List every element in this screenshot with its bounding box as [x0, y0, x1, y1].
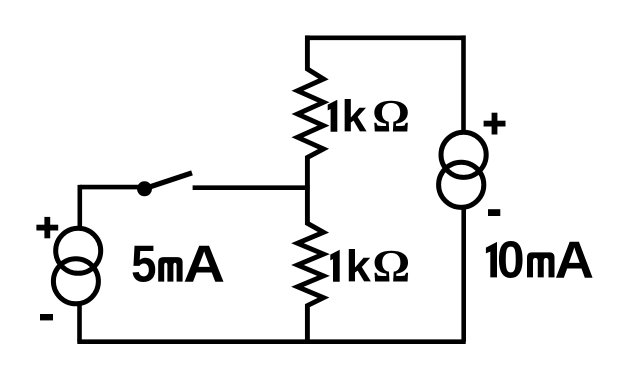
svg-text:0: 0 — [497, 231, 525, 289]
wire: middle horizontal left (left rail to switch) — [80, 185, 146, 190]
current source I2 lower circle — [439, 162, 484, 207]
wire: left rail lower (5mA source to bottom wire) — [77, 305, 82, 342]
switch S1 lever arm — [145, 173, 192, 189]
label: I1 value 5mA — [131, 236, 225, 294]
wire: left rail upper (middle wire to 5mA source) — [78, 185, 83, 228]
current source I1 upper circle — [56, 228, 101, 273]
wire: bottom horizontal — [77, 339, 465, 344]
wire: right rail lower (10mA source to bottom wire) — [461, 208, 466, 342]
label: I2 minus sign — [488, 209, 500, 216]
label: I1 minus sign — [40, 314, 53, 320]
wire: top horizontal — [307, 35, 463, 40]
svg-text:A: A — [555, 231, 594, 289]
switch S1 pivot dot — [137, 181, 152, 196]
label: I1 plus sign — [36, 217, 58, 238]
label: R1 value 1kΩ — [328, 92, 410, 143]
svg-text:Ω: Ω — [372, 242, 410, 293]
current source I1 lower circle — [53, 259, 98, 304]
wire: middle horizontal right (switch to middle node) — [193, 185, 310, 190]
svg-text:5: 5 — [131, 236, 156, 294]
svg-text:k: k — [346, 243, 371, 292]
current source I2 upper circle — [441, 132, 486, 177]
wire: right rail upper (top wire to 10mA source) — [461, 35, 466, 132]
svg-text:A: A — [183, 236, 225, 294]
label: R2 value 1kΩ — [330, 242, 410, 293]
label: I2 plus sign — [484, 113, 506, 135]
svg-text:k: k — [342, 93, 367, 142]
resistor R2 (bottom 1k) — [298, 187, 324, 341]
svg-text:Ω: Ω — [372, 92, 410, 143]
resistor R1 (top 1k) — [298, 35, 324, 187]
label: I2 value 10mA — [486, 231, 594, 289]
